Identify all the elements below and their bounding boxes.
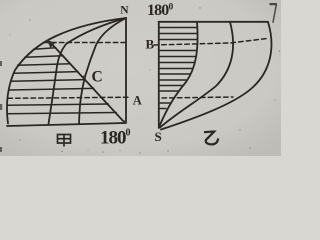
svg-text:180: 180 bbox=[147, 2, 169, 19]
svg-text:0: 0 bbox=[126, 128, 131, 139]
svg-text:A: A bbox=[133, 93, 142, 107]
svg-text:C: C bbox=[92, 69, 103, 86]
svg-text:N: N bbox=[120, 4, 129, 16]
svg-text:0: 0 bbox=[169, 3, 174, 13]
svg-text:B: B bbox=[146, 37, 155, 52]
svg-text:180: 180 bbox=[100, 128, 126, 149]
svg-text:S: S bbox=[155, 129, 162, 144]
